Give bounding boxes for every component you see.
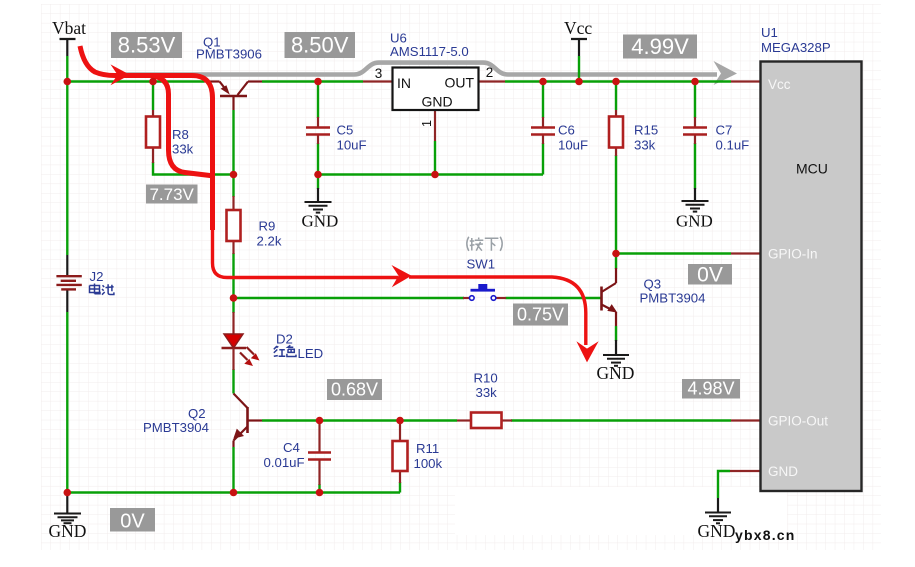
wire GPIO-In xyxy=(616,252,731,254)
ground under C5 xyxy=(317,188,319,202)
ground bottom left xyxy=(66,493,68,514)
svg-text:8.53V: 8.53V xyxy=(118,33,176,58)
svg-text:GND: GND xyxy=(421,94,452,110)
svg-text:LED: LED xyxy=(298,346,324,361)
red flow path to Q3 xyxy=(409,277,586,345)
wire MCU GND corner xyxy=(718,471,730,498)
wire R9 to SW node xyxy=(232,253,234,298)
svg-text:Vcc: Vcc xyxy=(564,18,592,38)
MCU U1 box xyxy=(731,80,761,82)
wire R10 to GPIO-Out xyxy=(511,419,731,421)
svg-text:R10: R10 xyxy=(474,371,498,386)
wire D2 top xyxy=(232,298,234,313)
gray hint text (按下) xyxy=(467,237,502,251)
wire R8 top xyxy=(152,82,154,111)
gray current-flow arrowhead xyxy=(714,61,738,85)
svg-text:AMS1117-5.0: AMS1117-5.0 xyxy=(390,44,469,59)
resistor R10 xyxy=(457,419,472,421)
wire SW1 left xyxy=(234,297,465,299)
svg-text:GND: GND xyxy=(676,212,713,231)
svg-text:R9: R9 xyxy=(259,219,276,234)
svg-text:0.75V: 0.75V xyxy=(517,305,564,325)
wire C5 gnd stem green xyxy=(317,175,319,190)
voltage label 4.98V xyxy=(682,379,740,399)
wire top rail mid xyxy=(262,80,363,82)
capacitor C5 xyxy=(317,117,319,127)
svg-text:2: 2 xyxy=(486,65,494,80)
svg-text:100k: 100k xyxy=(414,456,443,471)
transistor Q3 PMBT3904 xyxy=(602,268,617,326)
wire C7 top xyxy=(694,82,696,119)
voltage label 0.75V xyxy=(513,304,568,326)
wire U6 gnd pin green xyxy=(434,141,436,175)
transistor Q2 PMBT3904 xyxy=(234,394,263,448)
svg-text:7.73V: 7.73V xyxy=(149,185,194,204)
svg-text:33k: 33k xyxy=(172,142,194,157)
svg-text:Q3: Q3 xyxy=(644,277,662,292)
wire C6 top xyxy=(542,82,544,119)
wire Vcc stem xyxy=(578,56,580,82)
transistor Q1 PMBT3906 xyxy=(204,82,262,111)
wire bottom rail xyxy=(67,491,400,493)
diode D2 red LED xyxy=(232,312,234,334)
wire top rail right xyxy=(505,80,731,82)
svg-text:C6: C6 xyxy=(558,123,575,138)
svg-text:Q2: Q2 xyxy=(188,406,206,421)
svg-text:PMBT3904: PMBT3904 xyxy=(143,420,209,435)
svg-text:OUT: OUT xyxy=(444,75,474,91)
svg-text:J2: J2 xyxy=(90,269,104,284)
voltage label 8.53V xyxy=(111,32,182,58)
svg-text:GND: GND xyxy=(597,363,635,383)
wire R15 to GPIO-In node xyxy=(615,155,617,254)
svg-text:C7: C7 xyxy=(716,123,733,138)
svg-text:PMBT3904: PMBT3904 xyxy=(640,291,706,306)
wire R15 top xyxy=(615,82,617,111)
wire Vbat stem xyxy=(66,56,68,82)
wire R11 bottom corner xyxy=(399,482,401,493)
junction node dots xyxy=(64,78,699,497)
voltage label 8.50V xyxy=(285,32,356,58)
gray current-flow path xyxy=(118,63,717,75)
CJK 电池 label xyxy=(90,284,114,295)
voltage label 4.99V xyxy=(623,35,697,59)
ground under MCU GND pin xyxy=(717,498,719,512)
regulator U6 box xyxy=(363,80,393,82)
red flow arrowhead 2 xyxy=(392,265,412,287)
svg-text:GND: GND xyxy=(768,464,798,479)
svg-text:0V: 0V xyxy=(697,264,723,287)
wire C7 bottom xyxy=(694,143,696,189)
svg-text:C4: C4 xyxy=(283,440,300,455)
resistor R11 xyxy=(399,421,401,443)
white patch under watermark area xyxy=(455,487,787,535)
svg-text:U1: U1 xyxy=(761,25,778,40)
wire gnd rail C5 to C6 xyxy=(318,173,543,175)
svg-text:4.99V: 4.99V xyxy=(631,34,689,59)
svg-text:8.50V: 8.50V xyxy=(291,33,349,58)
capacitor C4 xyxy=(318,421,320,453)
svg-text:GND: GND xyxy=(49,521,87,541)
wire C6 bottom xyxy=(542,143,544,175)
ground under Q3 xyxy=(615,340,617,355)
ground under C7 xyxy=(694,188,696,201)
wire top rail left xyxy=(67,80,204,82)
svg-text:1: 1 xyxy=(420,120,434,127)
voltage label 0V at GPIO-In xyxy=(688,264,732,285)
resistor R8 xyxy=(152,110,154,117)
svg-text:0V: 0V xyxy=(120,511,145,533)
Vbat power symbol xyxy=(60,39,76,56)
svg-text:GND: GND xyxy=(698,521,736,541)
wire Q3 emitter green xyxy=(615,326,617,341)
D2 emission arrows xyxy=(247,347,255,355)
svg-text:0.01uF: 0.01uF xyxy=(264,455,305,470)
wire C5 top xyxy=(317,82,319,119)
voltage label 0.68V xyxy=(327,379,382,400)
wire Q2 base node xyxy=(262,419,457,421)
svg-text:10uF: 10uF xyxy=(337,138,367,153)
svg-text:Vbat: Vbat xyxy=(52,18,86,38)
wire left vertical to battery xyxy=(66,82,68,256)
wire R8 bottom corner xyxy=(153,162,234,175)
voltage label 0V bottom xyxy=(110,508,155,532)
wire C5 bottom xyxy=(317,143,319,175)
svg-text:R15: R15 xyxy=(634,123,658,138)
resistor R9 xyxy=(232,196,234,211)
wire C4 bottom green xyxy=(318,484,320,493)
svg-text:D2: D2 xyxy=(276,332,293,347)
svg-text:R11: R11 xyxy=(416,441,439,456)
svg-text:GND: GND xyxy=(302,212,339,231)
svg-text:ybx8.cn: ybx8.cn xyxy=(735,527,796,543)
wire Q3 collector green xyxy=(615,254,617,270)
svg-text:2.2k: 2.2k xyxy=(257,234,282,249)
wire battery to bottom rail xyxy=(66,312,68,493)
svg-text:3: 3 xyxy=(375,66,383,81)
wire SW1 right to Q3 base xyxy=(506,297,602,299)
svg-text:10uF: 10uF xyxy=(558,138,588,153)
svg-text:33k: 33k xyxy=(476,385,498,400)
Vcc power symbol xyxy=(571,39,587,56)
resistor R15 xyxy=(615,110,617,117)
svg-text:R8: R8 xyxy=(172,127,189,142)
svg-text:GPIO-In: GPIO-In xyxy=(768,247,818,262)
capacitor C6 xyxy=(542,117,544,127)
svg-text:IN: IN xyxy=(397,75,411,91)
svg-text:4.98V: 4.98V xyxy=(687,379,734,399)
wire D2 to Q2 collector xyxy=(232,369,234,394)
svg-text:33k: 33k xyxy=(634,138,656,153)
svg-text:GPIO-Out: GPIO-Out xyxy=(768,414,828,429)
svg-text:0.68V: 0.68V xyxy=(331,380,378,400)
voltage label 7.73V xyxy=(146,185,198,204)
wire Q1 base to R9 xyxy=(232,110,234,197)
wire Q2 emitter green xyxy=(232,447,234,493)
battery J2 xyxy=(66,255,68,275)
svg-text:SW1: SW1 xyxy=(467,257,496,272)
capacitor C7 xyxy=(694,117,696,127)
svg-text:0.1uF: 0.1uF xyxy=(716,138,750,153)
switch SW1 xyxy=(463,297,470,299)
svg-text:C5: C5 xyxy=(337,123,354,138)
red flow branch through R8 xyxy=(150,76,214,177)
svg-text:MEGA328P: MEGA328P xyxy=(761,40,831,55)
svg-text:MCU: MCU xyxy=(796,161,828,177)
svg-text:Vcc: Vcc xyxy=(768,77,791,92)
red flow arrowhead 1 xyxy=(111,64,131,85)
svg-text:PMBT3906: PMBT3906 xyxy=(196,47,262,62)
red flow arrowhead 3 (down to GND) xyxy=(576,341,598,362)
CJK 红色LED label xyxy=(274,345,296,356)
red flow path from Vbat xyxy=(80,46,213,230)
